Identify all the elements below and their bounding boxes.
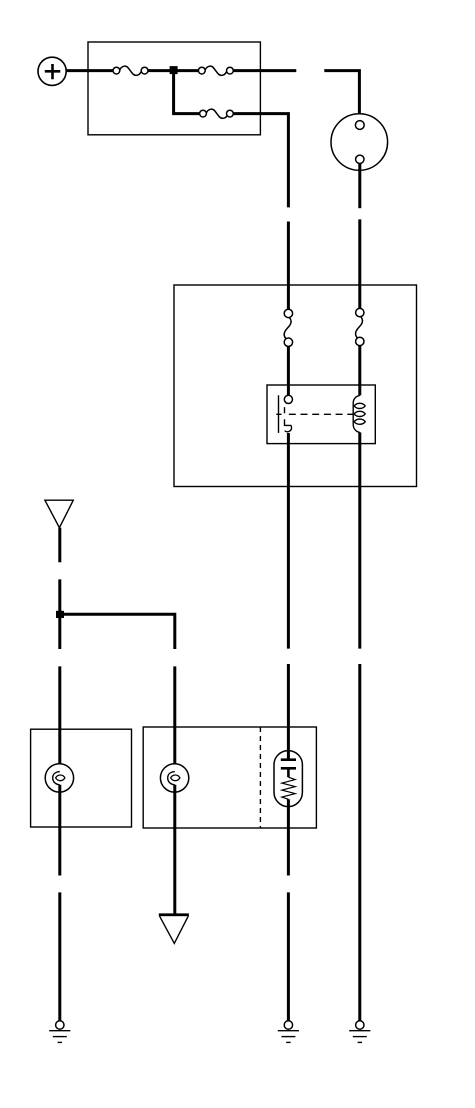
- capsule plate stem: [287, 768, 290, 777]
- combination box 2: [143, 727, 316, 828]
- battery B1 (circle with plus): [38, 57, 66, 85]
- wire right-most down (coil return): [358, 664, 361, 1021]
- relay coil: [353, 395, 365, 432]
- heater element capsule: [274, 751, 302, 807]
- wire F1 to F2 through junction: [148, 69, 199, 72]
- relay fixed contact bar: [278, 395, 280, 433]
- wire lamp L1 down: [58, 785, 61, 876]
- capsule resistor zigzag: [282, 777, 295, 799]
- wire relay contact down (exits relay unit box): [287, 433, 290, 649]
- wire right pin to relay coil: [358, 346, 361, 396]
- relay contact cross tick: [276, 413, 281, 415]
- fuse F1: [113, 66, 148, 75]
- lamp box 1: [31, 729, 132, 827]
- wire into heater capsule: [287, 664, 290, 760]
- wire junction A down: [174, 71, 200, 114]
- ground G3: [349, 1021, 370, 1043]
- connector arrow triangle (output to other page): [159, 915, 189, 944]
- wire left pin to relay contact: [287, 346, 290, 395]
- dashed internal divider: [259, 727, 261, 828]
- lamp L1: [45, 764, 73, 792]
- ground G1: [49, 1021, 70, 1043]
- fuse F2: [198, 66, 233, 75]
- relay inner box K1: [267, 385, 375, 444]
- fuse F3: [200, 109, 234, 118]
- wire capsule to ground: [287, 892, 290, 1021]
- wire right lamp feed: [173, 666, 176, 771]
- wire left pin into relay unit box: [287, 222, 290, 310]
- wire segment to ignition switch: [324, 71, 359, 121]
- capsule upper plate: [281, 758, 296, 761]
- wire relay coil down (exits relay unit box): [358, 432, 361, 648]
- relay unit box: [174, 285, 417, 487]
- lamp L2: [160, 764, 188, 792]
- connector arrow triangle (input from other page): [45, 500, 73, 528]
- wire F2 to right (exits box): [233, 69, 296, 72]
- wire lamp L2 down: [173, 785, 176, 915]
- wire capsule down: [287, 799, 290, 875]
- junction dot B: [56, 611, 64, 618]
- junction dot A: [170, 66, 178, 74]
- wire lamp L1 to ground: [58, 892, 61, 1021]
- branch wire junction B to right lamp: [60, 614, 175, 649]
- relay contact terminal circle: [284, 395, 292, 403]
- connector coil symbol left (circle-S-circle): [284, 309, 293, 346]
- relay actuation dashed link: [289, 413, 353, 415]
- wire F3 right then down: [233, 114, 288, 208]
- relay blade upper segment: [284, 407, 286, 413]
- ground G2: [278, 1021, 299, 1043]
- ignition switch SW1: [331, 114, 388, 171]
- relay blade lower segment with hook: [285, 419, 292, 431]
- capsule lower plate: [281, 767, 296, 770]
- wire resumes to junction B: [58, 579, 61, 649]
- wire right pin into relay unit box: [358, 219, 361, 308]
- wire left lamp feed: [58, 666, 61, 771]
- wire from triangle down: [58, 528, 61, 563]
- wire switch bottom down: [358, 164, 361, 209]
- connector coil symbol right (circle-S-circle): [355, 308, 364, 345]
- wire battery to fuse F1: [66, 69, 113, 72]
- fuse box (junction block): [88, 42, 260, 135]
